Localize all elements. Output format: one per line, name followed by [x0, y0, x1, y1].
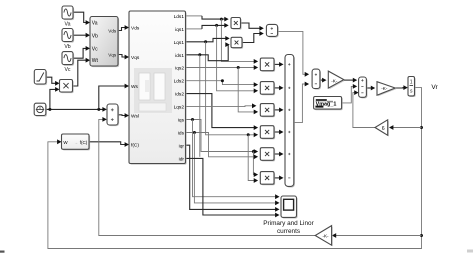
- arrow into sum C in1: [259, 26, 263, 31]
- wire product A to sum C: [241, 23, 263, 28]
- gain -K- (feedback): [315, 226, 333, 247]
- sine wave source Vc: [62, 52, 74, 66]
- wire iqs row to P5 in1: [186, 120, 256, 152]
- svg-text:Lqs2: Lqs2: [174, 105, 185, 111]
- wire iqs1 row stub: [186, 28, 202, 30]
- junction iqs to scope: [191, 118, 194, 121]
- product A: [231, 18, 242, 30]
- arrow into sum C in2: [259, 31, 263, 36]
- wire clock line to sum: [45, 108, 104, 110]
- svg-text:Vr: Vr: [431, 84, 438, 91]
- artifact bottom-right: [467, 250, 473, 253]
- arrow into Wt input: [86, 58, 90, 63]
- abc to dq transform block: [90, 17, 119, 68]
- arrow into sum in2: [102, 117, 106, 122]
- junction iqs2: [237, 66, 240, 69]
- wire Vb to transform: [73, 34, 89, 36]
- svg-text:iqs2: iqs2: [175, 66, 184, 72]
- svg-text:iqr: iqr: [179, 143, 185, 149]
- arrow into sum E in4: [279, 130, 283, 135]
- svg-text:Vds: Vds: [131, 25, 140, 31]
- svg-text:Vb: Vb: [92, 33, 98, 39]
- wire gain 6 output to sum F in3: [353, 93, 375, 128]
- arrow into sum E in1: [279, 62, 283, 67]
- wire Vr feedback to fcn: [48, 88, 422, 249]
- svg-text:-K-: -K-: [381, 86, 388, 91]
- motor model subsystem block: [129, 11, 187, 165]
- svg-text:6: 6: [382, 126, 385, 132]
- arrow into P2 in1: [254, 82, 258, 87]
- wire Lds1 row stub: [186, 15, 202, 17]
- wire sum F to gain K2: [367, 87, 374, 89]
- svg-text:-K-: -K-: [331, 78, 338, 83]
- integrator 1/s: [408, 77, 416, 98]
- wire P1 to sum E: [274, 63, 282, 65]
- wire Vr to gain 6: [391, 127, 422, 129]
- wire Lds1 row: [202, 16, 227, 19]
- constant block Vmag_1: [314, 97, 343, 111]
- gain -K- (speed loop): [328, 71, 345, 89]
- junction Vr to gain6: [420, 126, 423, 129]
- wire sum E to sum D in2: [294, 84, 308, 123]
- svg-text:ids1: ids1: [175, 53, 184, 59]
- arrow into Vqs input: [125, 55, 129, 60]
- svg-text:Vds: Vds: [108, 28, 117, 33]
- svg-text:Wsl: Wsl: [131, 113, 139, 119]
- arrow into scope in1: [275, 194, 279, 199]
- svg-text:1: 1: [410, 80, 413, 86]
- wire P4 to sum E: [274, 131, 282, 133]
- arrow into product B in2: [225, 42, 229, 47]
- arrow into product in1: [55, 81, 59, 86]
- sine wave source Vb: [62, 29, 74, 43]
- arrow into P6 in1: [254, 172, 258, 177]
- wire idr to scope in4: [186, 158, 278, 215]
- junction Lds1: [220, 18, 223, 21]
- arrow into Ws input: [125, 84, 129, 89]
- product P5: [260, 148, 275, 162]
- arrow into product in2: [55, 87, 59, 92]
- arrow into product A in1: [224, 17, 228, 22]
- wire Vds to model: [118, 28, 128, 31]
- sum block C: [266, 24, 278, 37]
- arrow into P1 in1: [254, 59, 258, 64]
- artifact bottom-left: [0, 251, 5, 253]
- arrow into fcn input: [57, 139, 61, 144]
- product Wt: [60, 80, 74, 94]
- svg-text:Primary and Linor: Primary and Linor: [263, 220, 314, 227]
- wire iqs2 branch to P3 in2: [238, 68, 256, 112]
- svg-text:Vqs: Vqs: [108, 52, 117, 57]
- wire Lqs1 branch to P4 in2: [206, 42, 257, 135]
- junction Vr to gain K: [420, 234, 423, 237]
- wire sum to Wsl input: [118, 114, 128, 117]
- arrow into scope in3: [275, 207, 279, 212]
- arrow into product A in2: [224, 23, 228, 28]
- wire branch to P6 in2: [248, 135, 256, 181]
- svg-text:f(C): f(C): [80, 140, 88, 145]
- arrow into sum F in3: [354, 90, 358, 95]
- wire ids row to P5 in2: [186, 133, 256, 157]
- clock source: [34, 103, 47, 116]
- arrow into sum F in2: [353, 84, 357, 89]
- svg-text:Vc: Vc: [92, 46, 98, 52]
- arrow into sum D in2: [305, 82, 309, 87]
- junction ids to scope: [193, 131, 196, 134]
- arrow into P3 in2: [254, 110, 258, 115]
- wire ids to scope in2: [194, 133, 278, 203]
- product P6: [260, 172, 275, 186]
- ramp source: [34, 70, 47, 86]
- wire ramp to product: [46, 77, 58, 83]
- wire P6 to sum E: [274, 177, 282, 179]
- wire product to Wt input: [73, 60, 89, 86]
- arrow into P5 in1: [254, 149, 258, 154]
- arrow into P2 in2: [254, 88, 258, 93]
- wire Vc to transform: [73, 48, 89, 58]
- wire Va to transform: [73, 12, 89, 22]
- arrow into Vc input: [86, 46, 90, 51]
- junction Lds2: [221, 79, 224, 82]
- junction Ws branch: [97, 108, 100, 111]
- wire Vqs to model: [118, 55, 128, 58]
- svg-text:f(C): f(C): [131, 142, 139, 148]
- svg-text:Lds2: Lds2: [174, 79, 185, 85]
- arrow into scope in2: [275, 201, 279, 206]
- svg-text:-K-: -K-: [322, 234, 329, 239]
- wire P3 to sum E: [274, 109, 282, 111]
- arrow into product B in1: [225, 36, 229, 41]
- wire product B to sum C: [242, 34, 262, 43]
- sum block E: [285, 55, 295, 188]
- svg-text:Vqs: Vqs: [131, 55, 140, 61]
- svg-text:Vb: Vb: [64, 44, 70, 50]
- arrow into f(C) input: [125, 142, 129, 147]
- wire P2 to sum E: [274, 87, 282, 89]
- wire sum D to gain K: [320, 79, 325, 81]
- wire iqs1 branch to P2 in2: [217, 25, 257, 90]
- arrow into P5 in2: [254, 154, 258, 159]
- wire Vr to left gain K: [333, 235, 421, 237]
- wire sum C to sum D in1: [278, 31, 308, 74]
- svg-text:currents: currents: [277, 228, 300, 235]
- junction to P6 in2: [247, 133, 250, 136]
- product P4: [260, 126, 275, 140]
- svg-text:idr: idr: [179, 156, 185, 162]
- svg-text:iqs: iqs: [178, 118, 185, 124]
- wire branch to P6 in1: [253, 152, 256, 175]
- wire clock branch to product in2: [50, 89, 58, 109]
- svg-text:Ws: Ws: [131, 84, 139, 90]
- wire iqs2 row to P1 in2: [186, 67, 256, 69]
- svg-text:ids: ids: [178, 131, 185, 137]
- product P3: [260, 104, 275, 118]
- svg-text:Va: Va: [92, 21, 98, 27]
- wire Lds1 branch to P1 in1: [221, 19, 256, 61]
- arrow into gain K2: [371, 86, 375, 91]
- wire gain K2 to integrator: [395, 87, 406, 89]
- sum block D: [312, 69, 321, 90]
- arrow into sum E in2: [279, 86, 283, 91]
- gain -K- (PI): [377, 82, 396, 97]
- arrow into scope in4: [275, 213, 279, 218]
- svg-text:Lds1: Lds1: [174, 14, 185, 20]
- arrow into sum D in1: [305, 72, 309, 77]
- fcn block W f(C): [62, 134, 91, 150]
- scope Primary and Linor currents: [281, 196, 298, 219]
- wire ids2 row to P4 in1: [186, 94, 256, 128]
- wire branch up to Ws input: [99, 86, 128, 109]
- junction Lqs1: [204, 40, 207, 43]
- svg-text:Va: Va: [65, 22, 71, 28]
- product B: [231, 37, 243, 49]
- arrow into integrator: [403, 85, 407, 90]
- sum block F: [359, 77, 368, 98]
- sum block Wsl: [107, 104, 119, 126]
- junction clock branch: [48, 108, 51, 111]
- wire Lds2 row to P2 in1: [186, 81, 256, 85]
- arrow into Va input: [86, 20, 90, 25]
- wire ids1 branch down: [199, 55, 201, 157]
- product P1: [260, 58, 275, 72]
- gain 6: [375, 120, 389, 137]
- wire iqs1 row: [202, 25, 227, 29]
- arrow into gain K: [322, 78, 326, 83]
- arrow into Wsl input: [125, 113, 129, 118]
- wire constant to sum F in2: [342, 86, 356, 103]
- junction to P6 in1: [252, 150, 255, 153]
- svg-text:→: →: [74, 140, 78, 145]
- wire Lqs2 row to P3 in1: [186, 105, 255, 108]
- arrow into left gain input: [332, 233, 336, 238]
- arrow into gain 6 input: [389, 125, 393, 130]
- arrow into sum E in3: [279, 108, 283, 113]
- arrow into P4 in1: [254, 125, 258, 130]
- svg-text:iqs1: iqs1: [175, 27, 184, 33]
- arrow into Vb input: [86, 33, 90, 38]
- arrow into sum E in6: [279, 176, 283, 181]
- arrow into P6 in2: [254, 178, 258, 183]
- svg-text:Wt: Wt: [92, 58, 99, 64]
- wire iqs to scope in1: [193, 120, 279, 197]
- svg-text:Vc: Vc: [64, 67, 70, 73]
- arrow into P3 in1: [252, 103, 256, 108]
- arrow into sum E in5: [279, 152, 283, 157]
- arrow into Vds input: [125, 25, 129, 30]
- wire P5 to sum E: [274, 153, 282, 155]
- arrow into sum F in1: [353, 78, 357, 83]
- junction iqs1: [215, 24, 218, 27]
- arrow into P4 in2: [254, 132, 258, 137]
- wire ids1 row: [186, 45, 228, 61]
- wire left gain K output to sum in2: [99, 119, 315, 235]
- product P2: [260, 82, 275, 96]
- svg-text:Lqs1: Lqs1: [174, 40, 185, 46]
- wire fcn to f(C) input: [89, 142, 128, 145]
- svg-text:ids2: ids2: [175, 92, 184, 98]
- arrow into P1 in2: [254, 65, 258, 70]
- wire gain K to sum F in1: [344, 79, 356, 81]
- sine wave source Va: [62, 6, 74, 20]
- wire iqr to scope in3: [186, 145, 278, 209]
- arrow into sum in1: [102, 107, 106, 112]
- wire Lqs1 row: [186, 38, 228, 41]
- junction ids1: [198, 53, 201, 56]
